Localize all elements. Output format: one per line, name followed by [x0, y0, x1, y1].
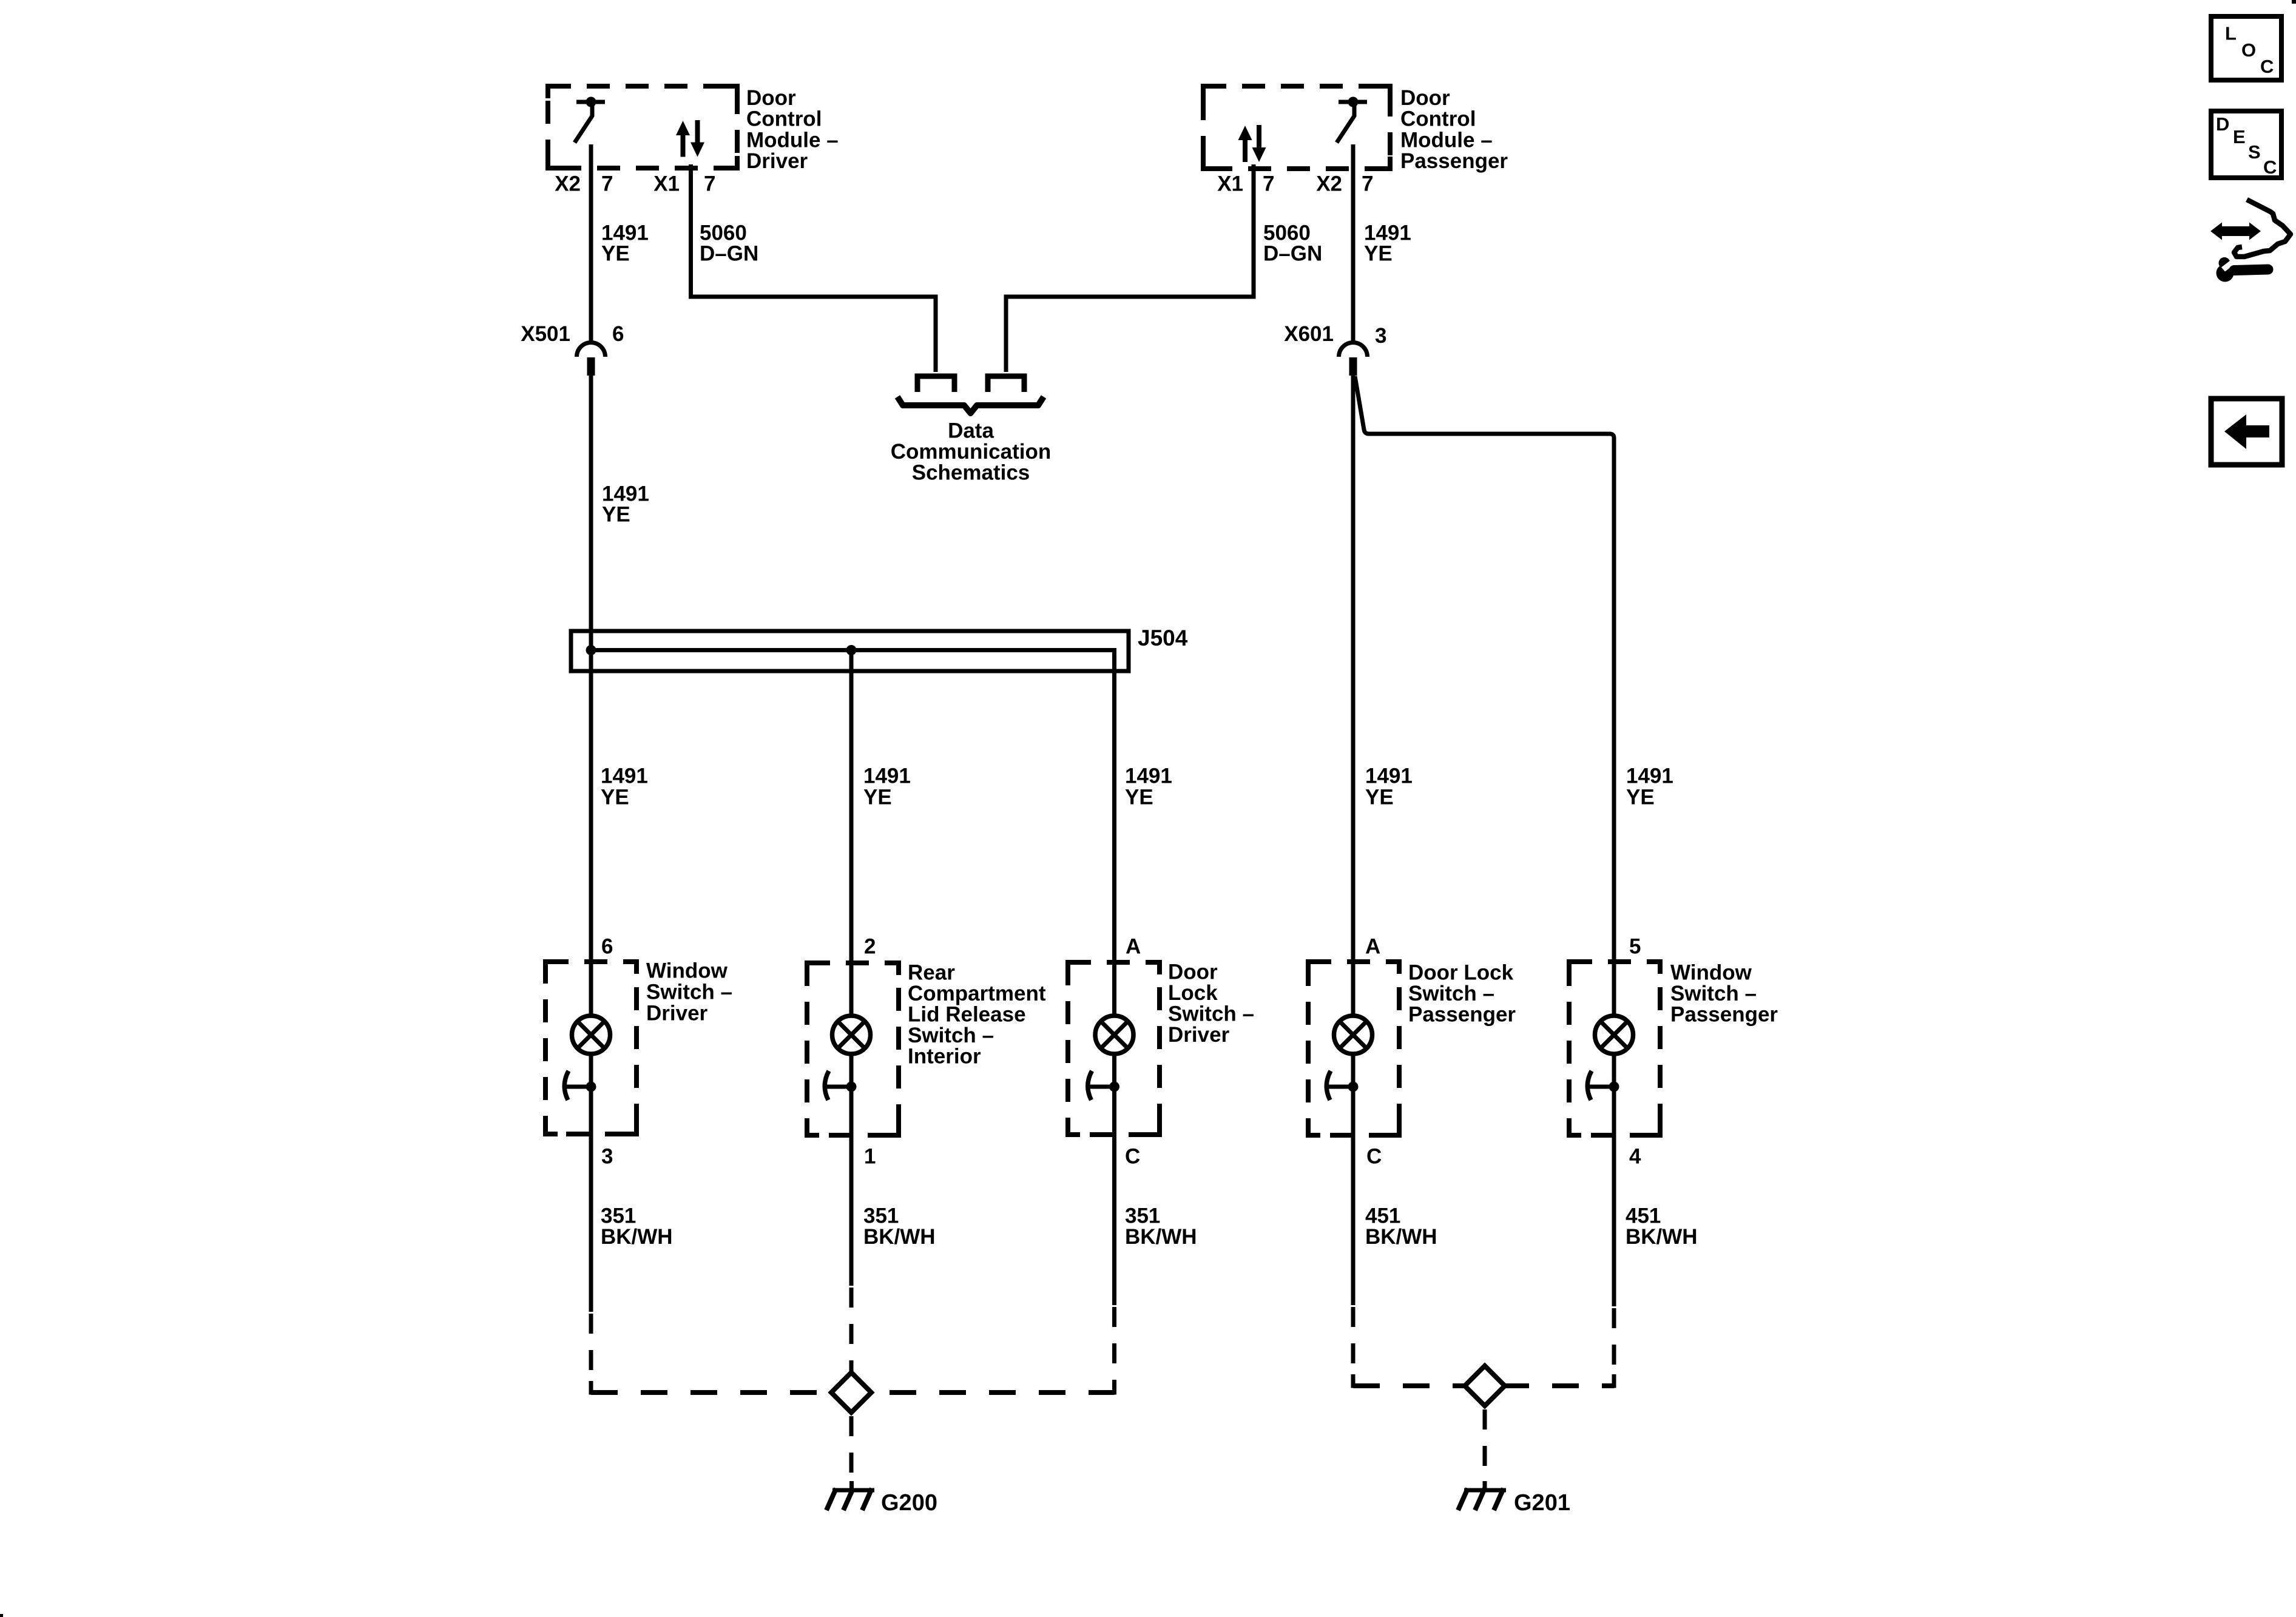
connector X501 (in-line connector symbol): [577, 343, 606, 376]
svg-text:A: A: [1126, 935, 1141, 959]
svg-text:Door Lock: Door Lock: [1408, 961, 1514, 985]
module U1: Door Control Module - Driver (dashed box): [548, 86, 737, 168]
label: 1491 YE (wire 3): [1125, 765, 1172, 809]
svg-text:C: C: [1366, 1145, 1382, 1169]
lamp L2 (circle-X): [832, 1016, 871, 1054]
svg-text:YE: YE: [601, 786, 629, 809]
lamp L4 (circle-X): [1334, 1016, 1373, 1054]
switch S2: Rear Compartment Lid Release Switch - Interior (dashed box): [807, 963, 899, 1135]
ground G201: [1458, 1481, 1506, 1510]
off-page connector bracket (right): [988, 376, 1024, 392]
svg-text:Switch –: Switch –: [1408, 982, 1494, 1005]
svg-text:G200: G200: [881, 1490, 937, 1516]
label: 351 BK/WH (wire 1): [601, 1204, 673, 1249]
svg-text:1491: 1491: [1125, 765, 1172, 788]
wire: dashed ground bus (passenger side): [1353, 1374, 1614, 1386]
label: G200: [881, 1490, 937, 1516]
svg-text:YE: YE: [863, 786, 892, 809]
splice block J504: [571, 631, 1129, 673]
svg-text:Rear: Rear: [908, 961, 955, 985]
ground G200: [826, 1481, 874, 1510]
svg-text:Schematics: Schematics: [912, 461, 1030, 485]
wire: J504 to Door Lock Switch Driver: [1112, 671, 1116, 1015]
lamp L5 (circle-X): [1595, 1016, 1633, 1054]
svg-text:O: O: [2241, 39, 2256, 61]
wire: below Window Switch Passenger (solid): [1612, 1135, 1616, 1306]
label: J504: [1138, 626, 1188, 650]
svg-text:C: C: [1125, 1145, 1140, 1169]
label: 1491 YE (wire 5): [1626, 765, 1673, 809]
svg-text:Lock: Lock: [1168, 981, 1218, 1005]
label: Door Control Module - Driver: [746, 86, 839, 173]
svg-text:Lid Release: Lid Release: [908, 1003, 1026, 1027]
svg-text:Interior: Interior: [908, 1045, 981, 1068]
wire: dashed drop wire 4: [1351, 1307, 1356, 1386]
label: Rear Compartment Lid Release Switch - Interior: [908, 961, 1046, 1068]
label: Door Control Module - Passenger: [1400, 86, 1508, 173]
svg-text:1: 1: [864, 1145, 876, 1169]
svg-text:6: 6: [612, 322, 624, 346]
wire: below Door Lock Switch Driver (solid): [1112, 1135, 1116, 1305]
wire: below Window Switch Driver (solid): [589, 1134, 593, 1312]
svg-text:Door: Door: [1168, 960, 1218, 984]
wire: dashed drop wire 1: [589, 1314, 593, 1393]
wire: dashed ground bus (driver side): [591, 1381, 1115, 1393]
svg-text:Control: Control: [1400, 107, 1476, 131]
switch contact S3 (lever + junction): [1088, 1053, 1119, 1135]
label: Door Lock Switch - Driver: [1168, 960, 1254, 1047]
svg-text:YE: YE: [1365, 786, 1394, 809]
label: Data Communication Schematics: [891, 419, 1051, 485]
svg-text:5: 5: [1629, 935, 1641, 959]
junction: J504 left dot: [586, 645, 596, 655]
label: Window Switch - Passenger: [1670, 961, 1778, 1027]
label: Door Lock Switch - Passenger: [1408, 961, 1516, 1027]
arrows: window up/down arrows (passenger module): [1238, 125, 1266, 162]
svg-text:X2: X2: [555, 172, 581, 196]
pin labels below switch boxes: [601, 1145, 1641, 1169]
label: 1491 YE (driver upper): [601, 221, 649, 266]
label: 1491 YE (wire 1): [601, 765, 648, 809]
svg-text:7: 7: [601, 172, 613, 196]
svg-text:Communication: Communication: [891, 440, 1051, 464]
svg-text:4: 4: [1629, 1145, 1641, 1169]
icon: connector/wrench (double arrow, shell, wrench): [2210, 200, 2291, 282]
svg-text:451: 451: [1626, 1204, 1661, 1228]
off-page connector bracket (left): [917, 376, 954, 392]
switch S-U1: internal switch symbol (driver module): [575, 97, 605, 143]
switch S4: Door Lock Switch - Passenger (dashed box): [1308, 962, 1399, 1135]
svg-text:7: 7: [1362, 172, 1373, 196]
svg-text:7: 7: [704, 172, 715, 196]
svg-text:X2: X2: [1316, 172, 1342, 196]
svg-text:1491: 1491: [601, 765, 648, 788]
svg-text:351: 351: [863, 1204, 899, 1228]
switch S1: Window Switch - Driver (dashed box): [545, 962, 636, 1134]
label: X601 / 3: [1284, 322, 1386, 348]
svg-text:E: E: [2233, 126, 2246, 147]
svg-text:YE: YE: [602, 503, 630, 527]
svg-text:BK/WH: BK/WH: [1365, 1225, 1437, 1249]
switch S5: Window Switch - Passenger (dashed box): [1569, 962, 1660, 1135]
wire: branch X601 to Window Switch Passenger: [1355, 376, 1614, 1015]
svg-text:Window: Window: [646, 959, 728, 983]
svg-text:Switch –: Switch –: [1670, 982, 1757, 1005]
splice diamond (passenger side): [1465, 1366, 1505, 1406]
svg-text:351: 351: [1125, 1204, 1160, 1228]
splice diamond (driver side): [831, 1372, 871, 1413]
switch contact S4 (lever + junction): [1326, 1053, 1358, 1135]
svg-text:Data: Data: [948, 419, 994, 443]
icon: back arrow box: [2211, 399, 2282, 465]
svg-text:Passenger: Passenger: [1400, 149, 1508, 173]
wire: dashed drop wire 3: [1112, 1307, 1116, 1393]
wire: passenger X2 pin down to X601: [1351, 144, 1356, 341]
svg-text:D: D: [2216, 113, 2229, 135]
wire: X501 down to J504 and on to Window Switch Driver: [589, 374, 593, 1015]
label: 351 BK/WH (wire 3): [1125, 1204, 1197, 1249]
svg-text:X501: X501: [521, 322, 570, 346]
label: X501 / 6: [521, 322, 624, 346]
svg-text:D–GN: D–GN: [1263, 242, 1322, 266]
svg-text:C: C: [2263, 157, 2277, 178]
svg-text:BK/WH: BK/WH: [1626, 1225, 1698, 1249]
switch S3: Door Lock Switch - Driver (dashed box): [1068, 962, 1160, 1135]
page mark: top-right dot: [2292, 0, 2296, 4]
connector X601 (in-line connector symbol): [1339, 343, 1368, 376]
svg-text:BK/WH: BK/WH: [863, 1225, 936, 1249]
svg-text:Compartment: Compartment: [908, 982, 1046, 1005]
wire: passenger X1 D-GN to center: [1006, 164, 1254, 372]
svg-text:X1: X1: [653, 172, 680, 196]
svg-text:S: S: [2248, 141, 2261, 163]
switch contact S1 (lever + junction): [564, 1053, 596, 1134]
svg-text:Passenger: Passenger: [1408, 1003, 1516, 1027]
svg-text:Driver: Driver: [1168, 1023, 1230, 1047]
svg-text:YE: YE: [1125, 786, 1153, 809]
wire: below Door Lock Switch Passenger (solid): [1351, 1135, 1356, 1305]
svg-text:6: 6: [601, 935, 613, 959]
wire: dashed drop to G200: [849, 1416, 854, 1488]
pin labels X1/7 X2/7 (passenger module): [1217, 172, 1373, 196]
switch contact S2 (lever + junction): [825, 1053, 856, 1135]
label: 5060 D-GN (passenger): [1263, 221, 1322, 266]
svg-text:1491: 1491: [863, 765, 911, 788]
svg-text:L: L: [2225, 23, 2237, 44]
svg-text:D–GN: D–GN: [700, 242, 758, 266]
switch contact S5 (lever + junction): [1587, 1053, 1619, 1135]
wire: driver X1 D-GN to center: [691, 164, 936, 372]
svg-text:X1: X1: [1217, 172, 1243, 196]
svg-text:A: A: [1365, 935, 1380, 959]
svg-text:2: 2: [864, 935, 876, 959]
svg-text:BK/WH: BK/WH: [1125, 1225, 1197, 1249]
svg-text:X601: X601: [1284, 322, 1334, 346]
svg-text:451: 451: [1365, 1204, 1400, 1228]
svg-text:Window: Window: [1670, 961, 1752, 985]
pin labels above switch boxes: [601, 935, 1641, 959]
wire: dashed drop to G201: [1483, 1409, 1487, 1481]
svg-text:Switch –: Switch –: [1168, 1002, 1254, 1026]
wire: dashed drop wire 5: [1612, 1308, 1616, 1386]
svg-text:7: 7: [1263, 172, 1274, 196]
label: 1491 YE (wire 4): [1365, 765, 1413, 809]
page mark: bottom-left dot: [0, 1614, 3, 1617]
svg-text:Door: Door: [746, 86, 796, 110]
pin labels X2/7 X1/7 (driver module): [555, 172, 715, 196]
svg-text:1491: 1491: [1365, 765, 1413, 788]
svg-text:Passenger: Passenger: [1670, 1003, 1778, 1027]
icon: DESC box: [2211, 111, 2281, 178]
wire: below Rear Compartment switch (solid): [849, 1135, 854, 1286]
svg-text:Control: Control: [746, 107, 822, 131]
arrows: window up/down arrows (driver module): [676, 120, 704, 157]
wire: dashed drop wire 2: [849, 1288, 854, 1372]
svg-text:YE: YE: [1364, 242, 1393, 266]
label: 1491 YE (wire 2): [863, 765, 911, 809]
brace: data communication schematics: [897, 397, 1044, 413]
svg-text:3: 3: [1375, 324, 1386, 348]
svg-text:Door: Door: [1400, 86, 1450, 110]
icon: LOC box: [2211, 16, 2281, 80]
junction: J504 middle dot: [846, 645, 857, 655]
wire: X601 down to Door Lock Switch Passenger: [1351, 374, 1356, 1015]
svg-text:YE: YE: [1626, 786, 1655, 809]
label: 1491 YE (passenger upper): [1364, 221, 1411, 266]
wire: driver X2 pin down to X501: [589, 144, 593, 341]
label: 451 BK/WH (wire 4): [1365, 1204, 1437, 1249]
svg-text:Switch –: Switch –: [646, 981, 732, 1004]
svg-text:Driver: Driver: [646, 1002, 708, 1025]
label: 5060 D-GN (driver): [700, 221, 758, 266]
wire: J504 to Rear Compartment switch: [849, 650, 854, 1016]
lamp L3 (circle-X): [1095, 1016, 1133, 1054]
label: G201: [1514, 1490, 1570, 1516]
svg-text:Module –: Module –: [746, 128, 839, 152]
svg-text:Driver: Driver: [746, 149, 808, 173]
switch S-U2: internal switch symbol (passenger module): [1337, 97, 1367, 143]
label: 451 BK/WH (wire 5): [1626, 1204, 1698, 1249]
label: 1491 YE (driver mid): [602, 482, 649, 527]
svg-text:351: 351: [601, 1204, 636, 1228]
label: 351 BK/WH (wire 2): [863, 1204, 936, 1249]
svg-text:Switch –: Switch –: [908, 1024, 994, 1047]
svg-text:Module –: Module –: [1400, 128, 1493, 152]
svg-text:G201: G201: [1514, 1490, 1570, 1516]
label: Window Switch - Driver: [646, 959, 732, 1025]
lamp L1 (circle-X): [572, 1016, 610, 1054]
svg-text:1491: 1491: [1626, 765, 1673, 788]
svg-text:J504: J504: [1138, 626, 1188, 650]
svg-text:YE: YE: [601, 242, 630, 266]
svg-text:C: C: [2260, 56, 2274, 77]
svg-text:BK/WH: BK/WH: [601, 1225, 673, 1249]
svg-text:3: 3: [601, 1145, 613, 1169]
module U2: Door Control Module - Passenger (dashed box): [1203, 86, 1390, 169]
